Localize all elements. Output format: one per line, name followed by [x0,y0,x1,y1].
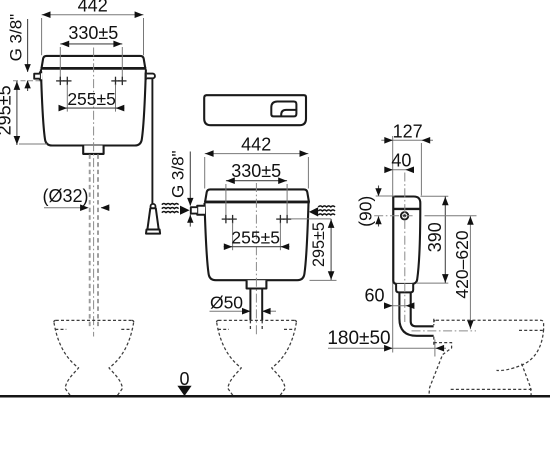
svg-text:G 3/8": G 3/8" [169,150,188,198]
svg-text:180±50: 180±50 [327,328,390,349]
svg-text:442: 442 [78,0,108,16]
svg-text:295±5: 295±5 [310,222,328,267]
svg-text:330±5: 330±5 [68,23,118,43]
svg-text:Ø50: Ø50 [210,292,243,312]
svg-text:127: 127 [393,121,423,141]
svg-text:390: 390 [425,222,445,252]
svg-text:40: 40 [391,150,411,170]
svg-text:60: 60 [364,285,384,305]
svg-text:255±5: 255±5 [67,89,116,109]
svg-text:(90): (90) [355,196,375,227]
svg-text:295±5: 295±5 [0,85,14,135]
svg-text:255±5: 255±5 [231,227,280,247]
svg-text:442: 442 [241,134,271,154]
svg-text:(Ø32): (Ø32) [42,186,88,206]
svg-text:330±5: 330±5 [231,161,281,181]
svg-text:G 3/8": G 3/8" [6,14,25,62]
svg-text:420–620: 420–620 [452,230,472,298]
